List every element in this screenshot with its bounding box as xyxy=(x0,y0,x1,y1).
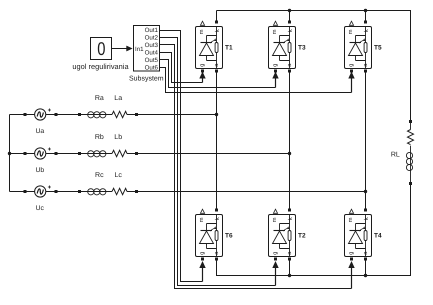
thyristor T5 xyxy=(345,21,382,73)
svg-text:In1: In1 xyxy=(135,46,144,53)
gate arrow T1 xyxy=(202,79,204,83)
svg-text:Uc: Uc xyxy=(36,205,45,212)
port Ua left xyxy=(24,113,27,116)
svg-text:RL: RL xyxy=(391,151,400,158)
resistor La xyxy=(112,111,127,117)
svg-text:k: k xyxy=(363,29,370,32)
port Ub right xyxy=(55,152,58,155)
svg-text:T6: T6 xyxy=(225,232,233,239)
node bus-T4 junction xyxy=(364,274,367,277)
thyristor T4 xyxy=(345,209,382,261)
AC voltage source Ua xyxy=(35,109,46,120)
svg-text:T2: T2 xyxy=(298,232,306,239)
wire phase C xyxy=(10,191,35,193)
wire left source bus xyxy=(9,115,11,192)
svg-text:T5: T5 xyxy=(374,44,382,51)
port RL top xyxy=(409,120,412,123)
port left RaLa xyxy=(78,113,81,116)
port left RbLb xyxy=(78,152,81,155)
svg-text:Out2: Out2 xyxy=(145,35,159,42)
gate arrow T4 xyxy=(351,268,353,289)
svg-text:0: 0 xyxy=(97,38,105,59)
svg-text:k: k xyxy=(287,29,294,32)
svg-text:Lb: Lb xyxy=(114,133,122,141)
wire bridge column 1 xyxy=(216,71,218,209)
inductor Ra xyxy=(88,112,94,118)
svg-text:Ub: Ub xyxy=(35,167,44,174)
resistor Lc xyxy=(112,188,127,194)
inductor of RL xyxy=(406,152,412,158)
svg-text:k: k xyxy=(363,217,370,220)
svg-text:m: m xyxy=(199,29,205,34)
svg-text:g: g xyxy=(349,252,355,255)
svg-text:Out6: Out6 xyxy=(145,65,159,72)
port left RcLc xyxy=(78,190,81,193)
svg-text:k: k xyxy=(214,29,221,32)
inductor Rc xyxy=(88,189,94,195)
inductor Rb xyxy=(88,151,94,157)
wire Out3 to T4 gate xyxy=(160,45,352,289)
wire bottom negative bus xyxy=(217,185,411,276)
svg-text:k: k xyxy=(214,217,221,220)
wire a stub T4 xyxy=(365,260,367,276)
port right RaLa xyxy=(135,113,138,116)
svg-text:m: m xyxy=(199,217,205,222)
AC voltage source Ub xyxy=(35,148,46,159)
thyristor T1 xyxy=(196,21,233,73)
port Uc right xyxy=(55,190,58,193)
port right RbLb xyxy=(135,152,138,155)
node B: phase B to column 2 xyxy=(288,152,291,155)
svg-text:m: m xyxy=(348,217,354,222)
wire k stub T5 xyxy=(365,11,367,21)
node C: phase C to column 3 xyxy=(364,190,367,193)
thyristor T3 xyxy=(269,21,306,73)
gate arrow T5 xyxy=(351,79,353,93)
svg-text:Lc: Lc xyxy=(114,172,122,179)
wire phase A xyxy=(10,114,35,116)
wire phase B xyxy=(10,153,35,155)
svg-text:Out1: Out1 xyxy=(145,27,159,34)
gate arrow T6 xyxy=(202,268,204,282)
resistor of RL xyxy=(408,130,414,145)
wire bridge column 3 xyxy=(365,71,367,209)
svg-text:Rb: Rb xyxy=(95,133,104,141)
svg-text:Rc: Rc xyxy=(95,172,104,179)
port RL bottom xyxy=(409,182,412,185)
svg-text:g: g xyxy=(349,64,355,67)
svg-text:Subsystem: Subsystem xyxy=(129,75,164,83)
thyristor T6 xyxy=(196,209,233,261)
wire Out2 to T2 gate xyxy=(160,38,276,286)
node A: phase A to column 1 xyxy=(215,113,218,116)
svg-text:Ua: Ua xyxy=(35,128,44,135)
wire Out5 to T3 gate xyxy=(160,60,276,88)
resistor Lb xyxy=(112,150,127,156)
svg-text:g: g xyxy=(200,252,206,255)
svg-text:m: m xyxy=(348,29,354,34)
wire k stub T1 xyxy=(216,11,218,21)
svg-text:Out4: Out4 xyxy=(145,50,159,57)
svg-text:g: g xyxy=(273,64,279,67)
gate arrow T3 xyxy=(275,79,277,88)
port right RcLc xyxy=(135,190,138,193)
svg-text:m: m xyxy=(272,217,278,222)
wire Out6 to T5 gate xyxy=(160,68,352,93)
wire a stub T2 xyxy=(289,260,291,276)
wire k stub T3 xyxy=(289,11,291,21)
node bus-T3 junction xyxy=(288,9,291,12)
node bus-T2 junction xyxy=(288,274,291,277)
thyristor T2 xyxy=(269,209,306,261)
port Ua right xyxy=(55,113,58,116)
svg-text:Out5: Out5 xyxy=(145,57,159,64)
gate arrow T2 xyxy=(275,268,277,286)
wire Out4 to T1 gate xyxy=(160,53,203,83)
svg-text:La: La xyxy=(114,95,122,102)
svg-text:T4: T4 xyxy=(374,232,382,239)
node bus-T5 junction xyxy=(364,9,367,12)
svg-text:g: g xyxy=(273,252,279,255)
port Ub left xyxy=(24,152,27,155)
AC voltage source Uc xyxy=(35,186,46,197)
constant block 0 (ugol regulirivania) xyxy=(91,38,112,60)
svg-text:k: k xyxy=(287,217,294,220)
svg-text:ugol regulirivania: ugol regulirivania xyxy=(72,62,129,71)
wire top positive bus xyxy=(217,11,411,121)
svg-text:g: g xyxy=(200,64,206,67)
wire Out1 to T6 gate xyxy=(160,31,203,282)
node source bus junction xyxy=(8,152,11,155)
svg-text:m: m xyxy=(272,29,278,34)
subsystem block xyxy=(134,26,160,72)
wire bridge column 2 xyxy=(289,71,291,209)
port Uc left xyxy=(24,190,27,193)
svg-text:Out3: Out3 xyxy=(145,42,159,49)
svg-text:T1: T1 xyxy=(225,44,233,51)
svg-text:T3: T3 xyxy=(298,44,306,51)
svg-text:Ra: Ra xyxy=(95,95,104,102)
wire constant to In1 with arrow xyxy=(112,48,128,50)
